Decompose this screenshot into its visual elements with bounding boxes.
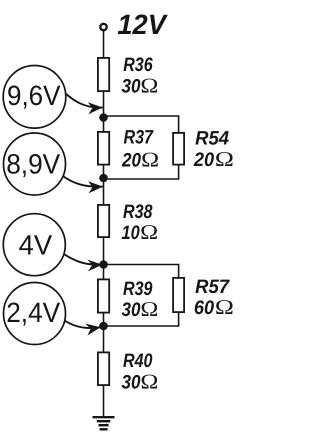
svg-text:20: 20 bbox=[121, 150, 141, 172]
probe circle 4V bbox=[3, 214, 65, 276]
probe circle 9,6V bbox=[3, 66, 66, 129]
wire branch node C to R57 top bbox=[104, 265, 179, 279]
svg-text:9,6V: 9,6V bbox=[7, 80, 61, 111]
wire R37 to R38 bbox=[103, 164, 105, 205]
svg-text:Ω: Ω bbox=[215, 295, 234, 319]
svg-text:10: 10 bbox=[122, 222, 140, 244]
wire top terminal to R36 bbox=[103, 31, 105, 58]
node A junction dot bbox=[99, 113, 108, 122]
probe circle 2,4V bbox=[4, 283, 66, 345]
svg-text:Ω: Ω bbox=[141, 148, 159, 172]
wire R57 bottom to node D bbox=[104, 312, 179, 327]
resistor R57 bbox=[173, 278, 184, 312]
resistor R38 bbox=[98, 205, 109, 237]
probe circle 8,9V bbox=[4, 133, 66, 195]
svg-text:30: 30 bbox=[122, 76, 141, 98]
node D junction dot bbox=[99, 322, 108, 331]
wire branch node A to R54 top bbox=[104, 116, 179, 133]
node B junction dot bbox=[99, 174, 108, 183]
svg-text:60: 60 bbox=[194, 297, 214, 319]
svg-text:8,9V: 8,9V bbox=[6, 149, 60, 180]
wire R54 bottom to node B bbox=[104, 164, 179, 179]
svg-text:Ω: Ω bbox=[140, 297, 158, 321]
wire R40 to ground bbox=[103, 385, 105, 417]
resistor R39 bbox=[98, 279, 109, 312]
resistor R54 bbox=[173, 133, 184, 165]
resistor R36 bbox=[98, 58, 109, 91]
arrow from 8,9V probe to node B bbox=[64, 177, 103, 187]
arrow from 2,4V probe to node D bbox=[65, 321, 101, 329]
ground bbox=[93, 417, 115, 429]
resistor R37 bbox=[98, 132, 109, 165]
wire R38 to node C bbox=[103, 237, 105, 280]
node C junction dot bbox=[99, 260, 108, 269]
svg-text:Ω: Ω bbox=[140, 370, 158, 394]
svg-text:R37: R37 bbox=[124, 127, 154, 149]
svg-text:12V: 12V bbox=[117, 9, 168, 40]
svg-text:R36: R36 bbox=[123, 54, 153, 76]
svg-text:4V: 4V bbox=[19, 229, 53, 260]
wire R36 to node A bbox=[103, 91, 105, 132]
resistor R40 bbox=[98, 352, 109, 385]
svg-text:20: 20 bbox=[193, 149, 214, 171]
svg-text:30: 30 bbox=[122, 372, 141, 394]
node 12V terminal bbox=[100, 24, 106, 30]
wire R39 to R40 bbox=[103, 312, 105, 353]
svg-text:Ω: Ω bbox=[140, 74, 158, 98]
arrow from 4V probe to node C bbox=[64, 254, 102, 265]
arrow from 9,6V probe to node A bbox=[66, 94, 103, 108]
svg-text:R54: R54 bbox=[195, 127, 229, 149]
svg-text:2,4V: 2,4V bbox=[6, 297, 60, 328]
svg-text:Ω: Ω bbox=[215, 147, 234, 171]
svg-text:30: 30 bbox=[122, 299, 141, 321]
svg-text:Ω: Ω bbox=[140, 220, 158, 244]
